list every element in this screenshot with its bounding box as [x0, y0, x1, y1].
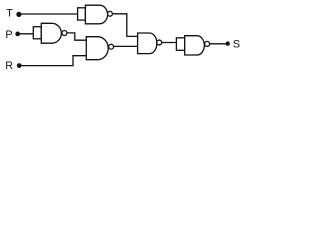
svg-text:P: P	[5, 29, 12, 41]
svg-text:R: R	[5, 60, 13, 72]
svg-text:S: S	[233, 38, 240, 50]
svg-text:T: T	[6, 8, 13, 20]
